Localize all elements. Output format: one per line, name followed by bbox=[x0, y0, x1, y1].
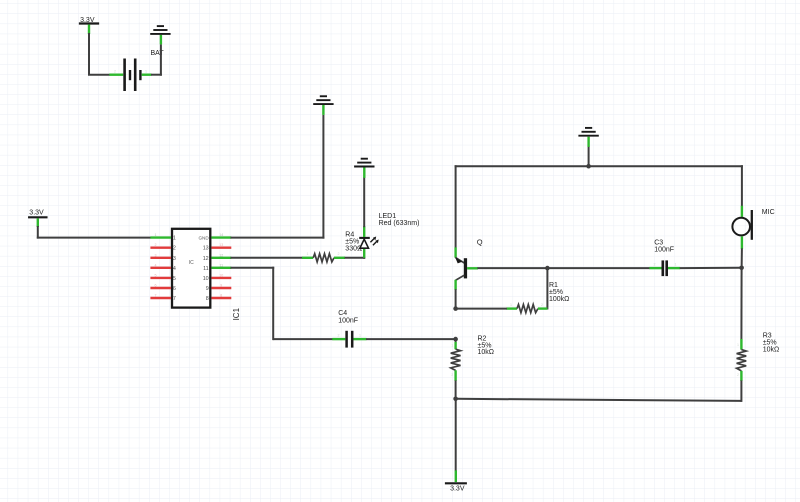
svg-text:12: 12 bbox=[219, 253, 223, 257]
svg-text:1: 1 bbox=[359, 334, 361, 338]
svg-text:11: 11 bbox=[219, 263, 223, 267]
wire 3.3V to battery bbox=[88, 33, 110, 75]
svg-text:3: 3 bbox=[173, 256, 176, 262]
svg-text:10kΩ: 10kΩ bbox=[478, 349, 495, 356]
wire LED to ground G2 bbox=[363, 177, 365, 227]
svg-text:5: 5 bbox=[173, 276, 176, 282]
wire 3.3V to IC pin 1 bbox=[37, 226, 151, 239]
svg-text:Red (633nm): Red (633nm) bbox=[379, 220, 420, 227]
label IC1 (rotated) bbox=[232, 307, 241, 320]
svg-text:330Ω: 330Ω bbox=[345, 246, 362, 253]
svg-text:2: 2 bbox=[654, 263, 656, 267]
svg-text:MIC: MIC bbox=[762, 209, 775, 216]
ground stub G3 bbox=[587, 137, 589, 147]
svg-text:1: 1 bbox=[155, 233, 157, 237]
label C3 value bbox=[654, 240, 674, 254]
node base/R1 junction bbox=[545, 266, 550, 271]
svg-text:GND: GND bbox=[198, 235, 209, 240]
svg-text:2: 2 bbox=[338, 334, 340, 338]
wire C4 to node bbox=[366, 338, 456, 340]
wire node to R2 bbox=[455, 339, 457, 343]
wire transistor to R2 node bbox=[455, 289, 457, 309]
resistor R4 bbox=[302, 254, 345, 262]
svg-text:2: 2 bbox=[173, 246, 176, 252]
node bottom junction bbox=[453, 397, 458, 402]
svg-text:1: 1 bbox=[451, 344, 453, 348]
svg-text:2: 2 bbox=[155, 243, 157, 247]
svg-text:2: 2 bbox=[541, 303, 543, 307]
svg-text:2: 2 bbox=[114, 70, 116, 74]
battery pin labels bbox=[114, 70, 147, 74]
resistor R2 bbox=[451, 342, 461, 381]
resistor R1 bbox=[507, 305, 548, 313]
ground G2 bbox=[354, 159, 374, 167]
svg-text:1: 1 bbox=[173, 236, 176, 242]
svg-text:2: 2 bbox=[338, 252, 340, 256]
svg-text:7: 7 bbox=[173, 296, 176, 302]
svg-text:7: 7 bbox=[155, 294, 157, 298]
svg-text:R4: R4 bbox=[345, 232, 354, 239]
R1 pin labels bbox=[510, 303, 543, 307]
battery ground stub bbox=[160, 35, 162, 45]
wire node to 3.3V bottom bbox=[455, 399, 457, 471]
microphone MIC bbox=[732, 206, 751, 249]
power symbol 3.3V (bottom) bbox=[445, 470, 467, 492]
wire R2 to bottom node bbox=[455, 380, 457, 399]
svg-text:IC1: IC1 bbox=[232, 307, 241, 320]
svg-text:2: 2 bbox=[451, 373, 453, 377]
capacitor C4 bbox=[332, 331, 366, 348]
svg-text:9: 9 bbox=[206, 286, 209, 292]
svg-text:8: 8 bbox=[220, 294, 222, 298]
label R1 value bbox=[549, 282, 569, 303]
R2 pin labels bbox=[451, 344, 453, 378]
IC IC1 body and pins bbox=[150, 229, 231, 308]
svg-text:11: 11 bbox=[203, 266, 209, 272]
svg-text:1: 1 bbox=[145, 70, 147, 74]
svg-text:100nF: 100nF bbox=[654, 247, 674, 254]
svg-text:100kΩ: 100kΩ bbox=[549, 296, 569, 303]
svg-text:6: 6 bbox=[155, 284, 157, 288]
svg-text:BAT: BAT bbox=[151, 50, 165, 57]
wire node to R1 bbox=[456, 308, 507, 310]
wire transistor base to C3 bbox=[477, 267, 649, 269]
wire C3 to mic node bbox=[680, 267, 742, 269]
LED LED1 bbox=[359, 226, 370, 258]
ground (battery) bbox=[150, 26, 170, 34]
wire R3 to bottom rail bbox=[740, 380, 742, 402]
svg-text:3.3V: 3.3V bbox=[29, 210, 44, 217]
svg-text:2: 2 bbox=[737, 373, 739, 377]
wire R1 vertical bbox=[546, 268, 548, 309]
wire IC pin11 to C4 bbox=[231, 267, 333, 340]
label LED1 bbox=[379, 213, 420, 227]
capacitor C3 bbox=[649, 260, 680, 276]
svg-text:100nF: 100nF bbox=[338, 317, 358, 324]
ground stub G1 bbox=[322, 105, 324, 115]
svg-text:1: 1 bbox=[737, 343, 739, 347]
label R3 value bbox=[763, 333, 780, 354]
svg-text:1: 1 bbox=[307, 252, 309, 256]
svg-text:4: 4 bbox=[173, 266, 176, 272]
wire top rail bbox=[455, 165, 743, 167]
ground G3 bbox=[578, 128, 598, 136]
label R4 value bbox=[345, 232, 362, 253]
node C3/MIC junction bbox=[739, 266, 744, 271]
R4 pin labels bbox=[307, 252, 340, 256]
svg-text:5: 5 bbox=[155, 273, 157, 277]
wire MIC to node bbox=[741, 248, 743, 269]
svg-text:10: 10 bbox=[203, 276, 209, 282]
node C4/R2 junction bbox=[453, 337, 458, 342]
svg-text:C4: C4 bbox=[338, 310, 347, 317]
label C4 value bbox=[338, 310, 358, 324]
node transistor/R1 junction bbox=[453, 306, 458, 311]
svg-text:6: 6 bbox=[173, 286, 176, 292]
svg-text:3.3V: 3.3V bbox=[450, 486, 465, 493]
node ground junction bbox=[586, 164, 591, 169]
resistor R3 bbox=[737, 339, 747, 381]
svg-text:IC: IC bbox=[189, 260, 194, 266]
svg-text:8: 8 bbox=[206, 296, 209, 302]
wire top rail to transistor bbox=[455, 165, 457, 247]
svg-text:14: 14 bbox=[219, 233, 223, 237]
label R2 value bbox=[478, 335, 495, 356]
wire IC pin12 to R4 bbox=[231, 257, 303, 259]
wire battery to ground bbox=[151, 44, 162, 75]
wire top rail to MIC bbox=[741, 165, 743, 206]
wire node to R3 bbox=[740, 268, 742, 340]
svg-text:Q: Q bbox=[477, 238, 483, 247]
wire R4 to LED bbox=[345, 257, 366, 259]
label Q bbox=[477, 238, 483, 247]
LED light arrows bbox=[370, 237, 378, 246]
wire bottom rail bbox=[456, 399, 742, 401]
IC pin number labels bbox=[155, 233, 224, 297]
svg-text:9: 9 bbox=[220, 284, 222, 288]
ground stub G2 bbox=[363, 167, 365, 178]
label MIC bbox=[762, 209, 775, 216]
R3 pin labels bbox=[737, 343, 739, 377]
battery BAT bbox=[109, 50, 164, 91]
svg-text:13: 13 bbox=[219, 243, 223, 247]
ground G1 bbox=[313, 96, 333, 104]
transistor Q bbox=[456, 247, 478, 289]
svg-text:1: 1 bbox=[675, 263, 677, 267]
wire IC pin14 to ground bbox=[231, 115, 325, 239]
svg-text:3: 3 bbox=[155, 253, 157, 257]
C3 pin labels bbox=[654, 263, 677, 267]
svg-text:12: 12 bbox=[203, 256, 209, 262]
wire ground G3 stub bbox=[588, 146, 590, 165]
svg-text:LED1: LED1 bbox=[379, 213, 397, 220]
svg-text:10: 10 bbox=[219, 273, 223, 277]
power symbol 3.3V (left) bbox=[28, 210, 48, 227]
svg-text:1: 1 bbox=[510, 303, 512, 307]
power symbol 3.3V (top left) bbox=[79, 17, 99, 34]
svg-text:13: 13 bbox=[203, 246, 209, 252]
svg-text:4: 4 bbox=[155, 263, 157, 267]
svg-text:10kΩ: 10kΩ bbox=[763, 346, 780, 353]
C4 pin labels bbox=[338, 334, 362, 338]
